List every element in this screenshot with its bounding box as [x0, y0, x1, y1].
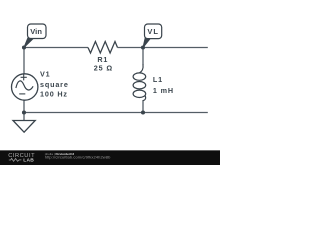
node bottom-left junction dot: [22, 110, 26, 114]
voltage source V1: [12, 74, 38, 100]
wire top: resistor to right open end: [118, 47, 208, 49]
svg-text:1 mH: 1 mH: [153, 86, 174, 95]
svg-text:Vin: Vin: [30, 27, 42, 36]
svg-text:square: square: [40, 80, 69, 89]
V1 minus sign: [19, 93, 25, 95]
wire left branch lower: [23, 100, 25, 112]
watermark bar: [0, 150, 220, 165]
svg-text:V1: V1: [40, 70, 51, 79]
wire left branch upper: [23, 48, 25, 74]
wire right branch upper: [142, 48, 144, 66]
V1 sine symbol: [16, 81, 33, 90]
inductor L1 coil: [139, 65, 143, 73]
node bottom-right junction dot: [141, 110, 145, 114]
node Vin flag box: [28, 24, 47, 39]
svg-text:25 Ω: 25 Ω: [94, 63, 113, 72]
svg-text:http://circuitlab.com/c/9fkx24: http://circuitlab.com/c/9fkx24h2w8b: [45, 155, 111, 160]
watermark logo zigzag: [9, 158, 22, 161]
node Vin junction dot: [22, 45, 26, 49]
wire bottom: [24, 112, 208, 114]
svg-text:100 Hz: 100 Hz: [40, 89, 68, 98]
resistor R1: [88, 42, 118, 54]
svg-text:L1: L1: [153, 75, 163, 84]
node VL flag box: [145, 24, 162, 39]
svg-text:VL: VL: [147, 27, 159, 36]
node Vin flag tail: [24, 37, 33, 48]
node VL flag tail: [143, 37, 150, 48]
V1 plus sign: [21, 74, 27, 80]
svg-text:LAB: LAB: [23, 158, 34, 164]
wire top: Vin node to resistor: [24, 47, 88, 49]
wire right branch lower: [142, 100, 144, 113]
node VL junction dot: [141, 45, 145, 49]
ground: [23, 113, 25, 121]
